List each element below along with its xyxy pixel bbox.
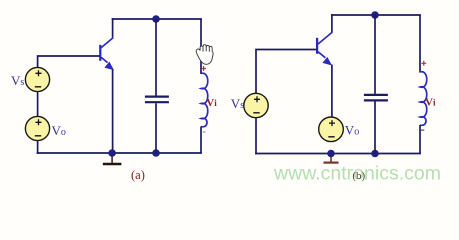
ground (a): [103, 153, 122, 164]
inductor L2: [420, 72, 427, 126]
wire collector lead Q2: [331, 14, 333, 33]
svg-text:Vi: Vi: [206, 97, 217, 109]
wire top rail (b): [331, 14, 421, 16]
node top junction (a): [152, 15, 160, 23]
ground (b): [324, 154, 339, 163]
wire emitter lead Q2: [331, 65, 333, 118]
wire capacitor top lead (a): [155, 19, 157, 96]
transistor Q2: [317, 32, 332, 65]
label - polarity (b): [421, 129, 424, 131]
svg-text:(a): (a): [131, 168, 145, 182]
node Vo-ground junction (b): [327, 150, 335, 158]
svg-text:Vo: Vo: [345, 122, 359, 137]
wire capacitor bottom lead (a): [155, 103, 157, 153]
cursor hand icon: [196, 45, 213, 65]
capacitor C1: [145, 97, 169, 103]
wire bottom rail (a): [37, 152, 202, 154]
capacitor C2: [364, 95, 388, 101]
wire inductor bottom lead (a): [200, 127, 202, 154]
wire Vs to Vo (a): [37, 91, 39, 117]
source Vo (a): [25, 116, 49, 140]
source Vs (a): [25, 67, 49, 91]
node emitter-ground junction (a): [108, 149, 116, 157]
wire emitter lead Q1: [112, 70, 114, 154]
label + polarity (b): [421, 61, 426, 66]
svg-text:(b): (b): [352, 170, 365, 182]
wire collector lead Q1: [112, 18, 114, 38]
wire capacitor bottom lead (b): [374, 102, 376, 154]
node capacitor bottom junction (b): [371, 150, 379, 158]
wire capacitor top lead (b): [374, 15, 376, 94]
wire bottom rail (b): [255, 153, 421, 155]
label + polarity (a): [201, 66, 206, 71]
svg-text:Vo: Vo: [52, 123, 66, 138]
svg-text:Vs: Vs: [11, 73, 24, 88]
source Vo (b): [319, 117, 344, 142]
wire Vo to bottom rail (a): [37, 140, 39, 154]
node capacitor bottom junction (a): [152, 149, 160, 157]
wire base Q1 to Vs (a): [38, 56, 100, 68]
svg-text:Vs: Vs: [231, 96, 244, 111]
wire base Q2 to Vs (b): [256, 50, 316, 94]
source Vs (b): [244, 93, 268, 117]
wire inductor top lead (a): [200, 19, 202, 74]
wire top rail (a): [112, 18, 202, 20]
inductor L1: [201, 73, 208, 127]
node top junction (b): [371, 11, 379, 19]
wire inductor bottom lead (b): [419, 125, 421, 154]
wire inductor top lead (b): [419, 15, 421, 73]
transistor Q1: [100, 38, 114, 71]
wire Vs to bottom rail (b): [255, 118, 257, 155]
svg-text:Vi: Vi: [425, 97, 436, 109]
label - polarity (a): [203, 131, 206, 133]
